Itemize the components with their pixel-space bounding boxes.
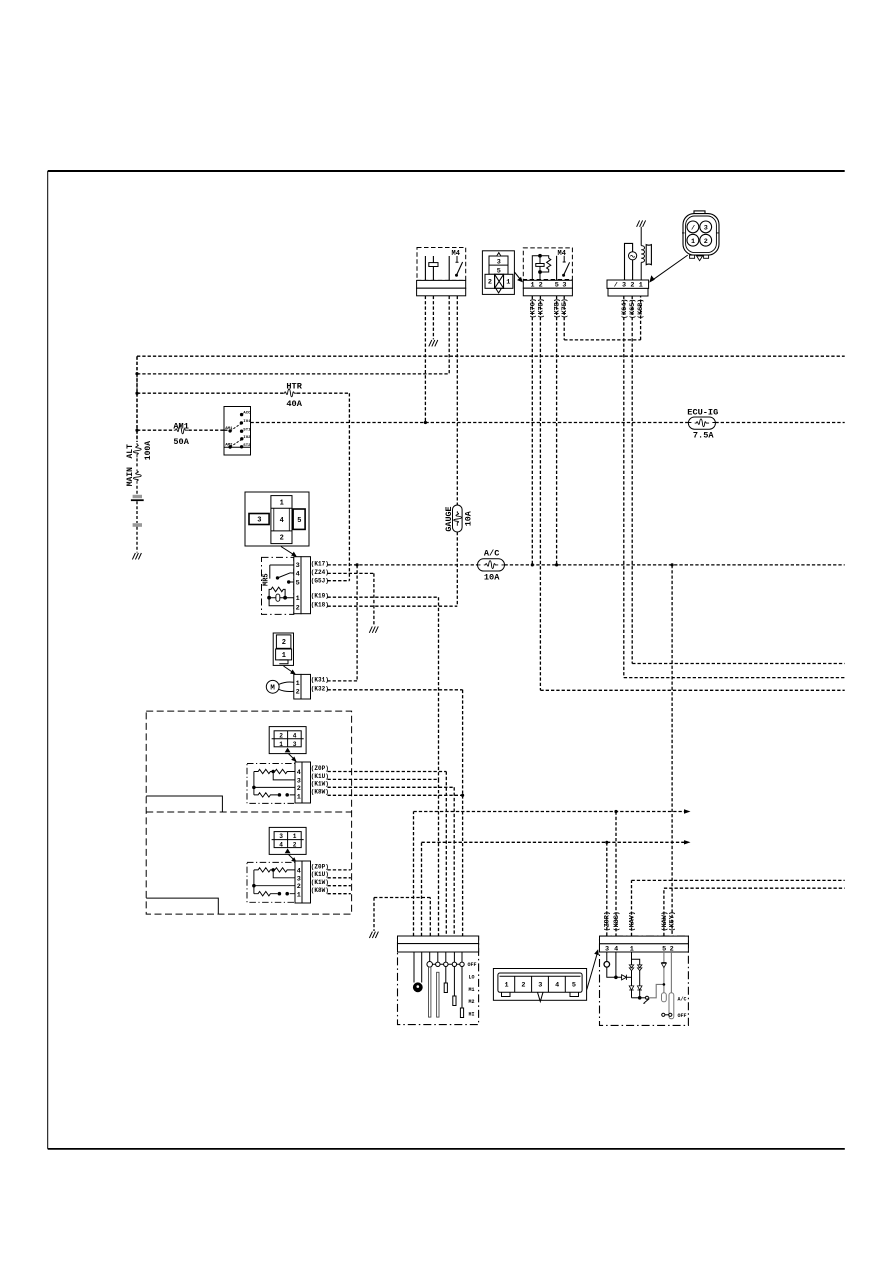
A/C switch connector strip pins 3 4 1 5 2 [600, 936, 689, 952]
blower switch connector strip [398, 936, 479, 952]
heater relay connector strip pins 3 4 5 1 2 [294, 557, 311, 614]
svg-text:1: 1 [506, 279, 510, 287]
blower motor pin numbers 1 2 [296, 680, 300, 697]
ignition switch SW1 [224, 407, 251, 456]
wire compressor pin2 output [632, 296, 845, 664]
svg-text:5: 5 [296, 579, 300, 587]
svg-text:IG1: IG1 [243, 420, 251, 424]
wire battery to ground [136, 527, 138, 553]
A/C OFF contact [662, 1013, 672, 1016]
svg-text:100A: 100A [144, 441, 153, 460]
A/C switch resistor network [632, 952, 646, 999]
diode D2 [629, 986, 634, 990]
svg-text:ACC: ACC [243, 412, 251, 416]
leader arrow connector C1 to compressor strip [652, 255, 687, 280]
resistor unit 1 pin numbers 4 3 2 1 [297, 769, 301, 801]
svg-text:IG2: IG2 [243, 436, 251, 440]
svg-text:(KAV): (KAV) [628, 911, 636, 931]
svg-text:2: 2 [297, 883, 301, 891]
svg-text:1: 1 [296, 595, 300, 603]
blower switch contact row [427, 952, 464, 967]
blower switch resistive bars [429, 967, 440, 1017]
svg-text:5: 5 [572, 981, 576, 989]
svg-text:(K19): (K19) [311, 593, 329, 600]
wire blower switch pin1 to A/C amplifier [414, 812, 686, 937]
svg-text:(Z0P): (Z0P) [311, 765, 329, 772]
connector pinout view (heater relay) 1/3-4-5/2 [245, 492, 309, 546]
svg-text:1: 1 [297, 892, 301, 900]
wire HTR drop to heater relay pin 5 [348, 393, 350, 581]
wire A/C switch pin3 branch (Z9R) [606, 842, 608, 936]
svg-text:2: 2 [293, 842, 297, 849]
svg-text:M2: M2 [469, 999, 475, 1005]
resistor unit 1 connector strip pins 4 3 2 1 [295, 762, 311, 803]
svg-text:(Z9R): (Z9R) [604, 911, 612, 931]
svg-text:(K64): (K64) [621, 299, 629, 319]
wire between fusible links [136, 458, 138, 467]
svg-text:3: 3 [279, 833, 283, 840]
blower switch SW2 [398, 936, 479, 1025]
relay R1 connector strip [417, 280, 466, 295]
svg-text:(K5Y): (K5Y) [668, 911, 676, 931]
wire blower switch pin2 to A/C amplifier [422, 842, 686, 936]
svg-text:2: 2 [488, 279, 492, 287]
svg-text:2: 2 [296, 604, 300, 612]
svg-text:40A: 40A [286, 399, 302, 409]
wire (K8W) resistor to (K32) junction [328, 794, 463, 796]
svg-text:3: 3 [497, 258, 501, 266]
wire relay R2 pin2 (K7D) output [540, 296, 844, 691]
svg-text:1: 1 [279, 741, 283, 748]
wire relay R2 pin1 (K7C) to A/C fuse line [531, 296, 533, 565]
heater duct step (lower) [146, 898, 218, 914]
A/C switch contact [643, 996, 649, 1003]
svg-text:GAUGE: GAUGE [444, 506, 454, 531]
node dot A/C pin5 [663, 983, 666, 986]
svg-text:2: 2 [539, 282, 543, 290]
leader arrow pinout to resistor unit 1 [288, 754, 295, 760]
svg-text:(K8W): (K8W) [311, 887, 329, 894]
fuse ECU-IG 7.5A [687, 407, 718, 440]
relay R2 M4 (coil side) [523, 248, 572, 280]
svg-text:4: 4 [279, 842, 283, 849]
thermistor symbols [629, 965, 642, 971]
svg-text:ALT: ALT [126, 444, 135, 459]
wire relay R1 pin4 to GAUGE fuse and on to (K18) [456, 296, 458, 606]
relay R2 pin numbers 1 2 5 3 [531, 282, 567, 290]
svg-text:2: 2 [279, 732, 283, 739]
A/C switch illumination bulb [604, 952, 622, 979]
relay R1 M4 (contact side) [417, 248, 466, 281]
svg-text:4: 4 [555, 981, 559, 989]
wire A/C fuse to A/C switch pin2 (K5Y) [671, 565, 673, 936]
svg-text:2: 2 [280, 535, 284, 543]
battery feed bus wire (vertical, left) [136, 356, 138, 442]
wire (K1U) resistor to (K19) junction [328, 778, 439, 780]
compressor connector strip with pins / 3 2 1 [607, 280, 649, 296]
wire AM1 fuse line [137, 429, 225, 431]
wire relay R1 pin1 to IG1 line [424, 296, 426, 423]
svg-text:2: 2 [630, 282, 634, 290]
fuse A/C 10A [478, 549, 505, 583]
wire (Z24) to ground [328, 573, 374, 625]
resistor unit 2 connector strip pins 4 3 2 1 [295, 861, 311, 903]
leader arrow pinout to relay R2 [514, 272, 521, 281]
svg-text:2: 2 [521, 981, 525, 989]
resistor unit 2 pin numbers 4 3 2 1 [297, 867, 301, 899]
wire A/C switch pin4 branch (K8S) [615, 812, 617, 937]
svg-text:4: 4 [296, 570, 300, 578]
ground (A/C compressor) [637, 220, 646, 226]
svg-text:OFF: OFF [468, 962, 477, 968]
svg-text:AM1: AM1 [173, 421, 188, 431]
svg-text:3: 3 [296, 562, 300, 570]
connector pinout view (resistor unit 2) 3 1 / 4 2 [269, 827, 306, 854]
svg-text:7.5A: 7.5A [693, 431, 714, 441]
fuse HTR 40A [283, 382, 303, 409]
svg-text:(K7E): (K7E) [561, 298, 569, 318]
wire second line to relay pin [137, 373, 449, 375]
connector pinout view (resistor unit 1) 2 4 / 1 3 [269, 727, 306, 754]
svg-text:2: 2 [704, 238, 708, 246]
svg-text:HI: HI [469, 1011, 475, 1017]
ground (battery) [132, 553, 141, 559]
wire (Z0P) resistor to switch pin5 [328, 772, 447, 937]
blower switch position labels [468, 962, 477, 1017]
svg-text:/: / [614, 282, 618, 290]
svg-text:OFF: OFF [678, 1013, 687, 1019]
wire branch to blower motor (K31) [328, 565, 358, 681]
svg-text:(K8S): (K8S) [613, 911, 621, 931]
connector C2 face view (5 pin) [493, 969, 586, 1002]
wire fusible link to battery [136, 486, 138, 495]
svg-text:A/C: A/C [678, 997, 687, 1003]
svg-text:1: 1 [293, 833, 297, 840]
svg-text:50A: 50A [173, 437, 189, 447]
svg-text:1: 1 [639, 282, 643, 290]
svg-text:(K18): (K18) [311, 602, 329, 609]
fuse AM1 50A [173, 421, 189, 447]
svg-text:1: 1 [531, 282, 535, 290]
svg-text:4: 4 [280, 517, 284, 525]
blower motor M1 [266, 680, 293, 693]
svg-text:2: 2 [296, 689, 300, 697]
connector pinout view (relay M4 coil) 3/5/2X1 [482, 251, 514, 295]
svg-text:1: 1 [297, 793, 301, 801]
wire (K18) heater relay to GAUGE fuse [328, 605, 458, 607]
fusible link MAIN [126, 467, 141, 486]
blower resistor unit 2 [247, 862, 295, 902]
arrow continuation blower switch pin2 wire [684, 840, 691, 844]
wire relay R1 pin3 down to bus line 2 [448, 296, 450, 374]
compressor clutch coil and motor A/C1 [625, 227, 652, 280]
wire relay R2 pin5 (K7B) to A/C fuse line [556, 296, 558, 565]
wire blower switch pin3 to ground [374, 898, 430, 937]
connector pinout view (blower motor) 2/1 [273, 633, 293, 665]
svg-text:M: M [270, 685, 275, 693]
svg-text:LO: LO [469, 975, 475, 981]
svg-text:(K1U): (K1U) [311, 871, 329, 878]
svg-text:MR5: MR5 [262, 573, 270, 586]
svg-text:4: 4 [293, 732, 297, 739]
wire IG1 output line with ECU-IG fuse [251, 422, 845, 424]
fusible link ALT 100A [126, 441, 153, 460]
wire A/C switch pin1 (KAV) output [632, 880, 845, 936]
svg-text:5: 5 [555, 282, 559, 290]
svg-text:3: 3 [704, 225, 708, 233]
wire relay R2 pin3 (K7E) jog to compressor pin1 [564, 296, 640, 340]
svg-text:M1: M1 [469, 987, 475, 993]
pinout cell numbers 3 5 2 1 [488, 258, 510, 286]
wire main bus top branch [136, 356, 138, 373]
wire HTR fuse line [137, 392, 349, 394]
heater relay pin numbers 3 4 5 1 2 [296, 562, 300, 612]
node dot (K8W)/(K32) [461, 794, 464, 797]
node dot switch pin1 line / A/C pin4 [614, 810, 617, 813]
svg-text:2: 2 [282, 639, 286, 647]
svg-text:1: 1 [296, 680, 300, 688]
wire (K32) blower motor to switch pin7 [328, 690, 463, 936]
compressor pin numbers / 3 2 1 [614, 282, 643, 290]
svg-text:4: 4 [297, 769, 301, 777]
svg-text:(K17): (K17) [311, 560, 329, 567]
resistor unit 2 pinout cell numbers 3 1 4 2 [279, 833, 297, 849]
wire A/C fuse line (K17) [328, 564, 845, 566]
wire resistor unit2 stubs [328, 870, 351, 894]
svg-text:3: 3 [622, 282, 626, 290]
svg-text:3: 3 [293, 741, 297, 748]
node dot switch pin2 line / A/C pin3 [605, 841, 608, 844]
svg-text:2: 2 [297, 785, 301, 793]
ground (Z24 heater relay) [369, 626, 378, 632]
A/C switch SW3 [600, 936, 689, 1025]
A/C switch terminal bars [662, 993, 674, 1019]
svg-text:5: 5 [497, 268, 501, 276]
svg-text:(K1W): (K1W) [311, 781, 329, 788]
A/C switch gray link wires [649, 952, 672, 998]
wire AM1 into switch [225, 429, 230, 431]
svg-text:10A: 10A [464, 510, 474, 526]
svg-text:(K7D): (K7D) [537, 298, 545, 318]
heater relay MR5 [262, 557, 294, 614]
fuse GAUGE 10A [444, 505, 474, 532]
svg-text:MAIN: MAIN [126, 467, 135, 486]
svg-text:(K1W): (K1W) [311, 879, 329, 886]
svg-text:(Z0P): (Z0P) [311, 863, 329, 870]
wire (G5J) heater relay pin5 stub [328, 580, 350, 582]
blower resistor unit 1 [247, 764, 295, 804]
ground (relay R1 pin2) [429, 340, 438, 346]
connector C1 face view (round 4-pin) [682, 211, 719, 261]
svg-text:/: / [691, 225, 695, 233]
wire B+ top line [137, 355, 845, 357]
relay R2 connector strip with pins 1 2 5 3 [523, 280, 572, 296]
wire (K19) heater relay to blower switch pin4 [328, 597, 439, 936]
svg-text:1: 1 [282, 652, 286, 660]
wire (K1W) resistor to switch pin6 [328, 787, 455, 936]
connector C1 pin numbers / 3 1 2 [691, 225, 708, 246]
wire relay R1 pin2 to ground [432, 296, 434, 340]
node: bus junction dots [135, 372, 138, 375]
node dot IG1/relay wire [424, 421, 427, 424]
heater unit enclosure box [146, 711, 351, 914]
leader arrow pinout to resistor unit 2 [288, 854, 295, 860]
diode D1 [622, 975, 632, 980]
svg-text:1: 1 [691, 238, 695, 246]
leader arrow pinout to motor strip [284, 666, 294, 673]
svg-text:ST2: ST2 [243, 444, 251, 448]
svg-text:HTR: HTR [286, 382, 302, 392]
svg-text:(G5J): (G5J) [311, 577, 329, 584]
arrow continuation blower switch pin1 wire [684, 809, 691, 813]
svg-text:1: 1 [280, 499, 284, 507]
wire compressor pin3 output [624, 296, 845, 678]
pinout cell numbers 1 4 2 3 5 [257, 499, 301, 542]
svg-text:M4: M4 [452, 250, 460, 258]
battery [131, 495, 144, 527]
leader arrow pinout to heater relay strip [281, 547, 295, 556]
svg-text:AM2: AM2 [225, 443, 233, 447]
page frame (open right side) [48, 171, 845, 1149]
svg-text:(K7C): (K7C) [529, 298, 537, 318]
svg-text:(K8W): (K8W) [311, 789, 329, 796]
heater duct step (upper) [146, 796, 222, 812]
svg-text:ST1: ST1 [243, 428, 251, 432]
svg-text:3: 3 [562, 282, 566, 290]
ignition switch terminal labels [225, 412, 251, 448]
wire A/C switch pin5 (KAW) output [664, 888, 845, 936]
leader arrow C2 to A/C switch strip [587, 954, 597, 990]
svg-text:3: 3 [538, 981, 542, 989]
diode D3 [637, 986, 642, 990]
svg-text:5: 5 [297, 517, 301, 525]
diode D4 [661, 963, 666, 968]
svg-text:(K31): (K31) [311, 676, 329, 683]
svg-text:(Z24): (Z24) [311, 569, 329, 576]
motor pinout cell numbers 2 1 [282, 639, 286, 660]
svg-text:(K32): (K32) [311, 685, 329, 692]
resistor unit 1 pinout cell numbers 2 4 1 3 [279, 732, 297, 748]
svg-text:M4: M4 [558, 250, 566, 258]
blower motor connector strip pins 1 2 [294, 674, 311, 699]
svg-text:4: 4 [297, 867, 301, 875]
A/C switch pin numbers 3 4 1 5 2 [605, 945, 674, 953]
svg-text:10A: 10A [484, 572, 500, 582]
svg-text:(K1U): (K1U) [311, 773, 329, 780]
ground (blower switch) [369, 932, 378, 938]
blower switch lever [413, 952, 422, 992]
svg-text:ECU-IG: ECU-IG [687, 407, 718, 417]
svg-text:3: 3 [257, 517, 261, 525]
connector C2 pin numbers 1 2 3 4 5 [505, 981, 576, 989]
svg-text:1: 1 [505, 981, 509, 989]
node dots on A/C fuse line [356, 563, 359, 566]
svg-text:A/C: A/C [484, 549, 499, 559]
